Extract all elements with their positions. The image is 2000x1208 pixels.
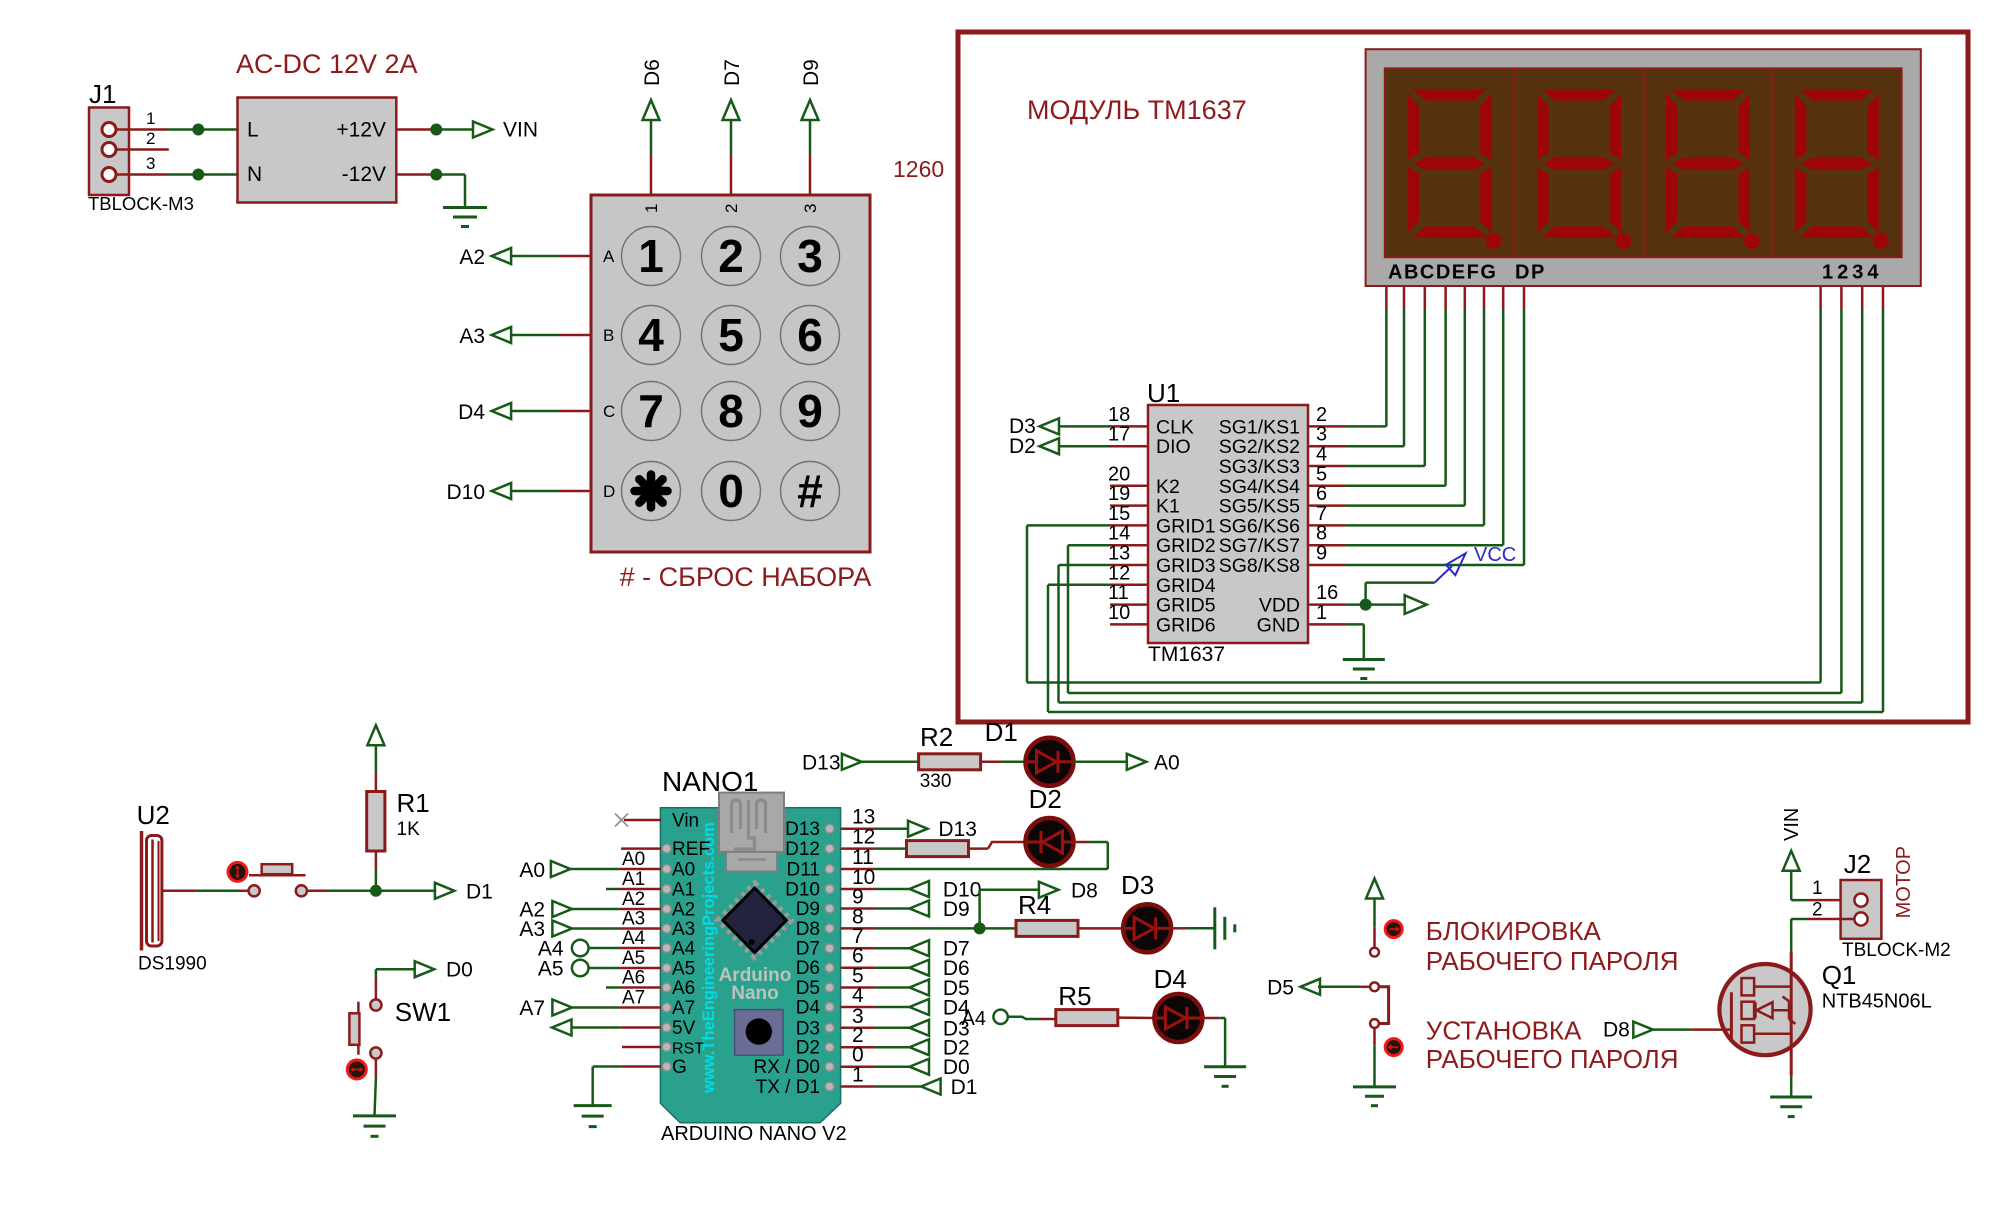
U1 pin 9 SG8/KS8 bbox=[1219, 543, 1346, 578]
svg-text:K1: K1 bbox=[1156, 496, 1180, 518]
svg-text:9: 9 bbox=[1316, 543, 1327, 565]
U1 pin 12 GRID4 bbox=[1108, 562, 1216, 597]
wire U1 SG1/KS1 to display segment bbox=[1346, 310, 1386, 426]
terminal A2 bbox=[519, 899, 572, 922]
ground below SW1 bbox=[353, 1116, 396, 1136]
svg-text:GRID4: GRID4 bbox=[1156, 575, 1216, 597]
svg-text:D2: D2 bbox=[1009, 435, 1036, 458]
svg-text:1: 1 bbox=[638, 230, 664, 282]
wire R4 to LED D3 bbox=[1078, 927, 1124, 930]
svg-text:A3: A3 bbox=[622, 909, 645, 930]
wire U1 SG7/KS7 to display segment bbox=[1346, 310, 1503, 545]
wire stub RST bbox=[622, 1046, 661, 1049]
svg-text:A2: A2 bbox=[622, 889, 645, 910]
svg-text:B: B bbox=[603, 326, 614, 345]
keypad row letter D bbox=[603, 482, 615, 501]
wire R1 top to power arrow bbox=[375, 744, 378, 791]
wire U1 GRID2 to display digit 2 bbox=[1068, 310, 1841, 693]
U1 pin 16 VDD bbox=[1259, 582, 1346, 617]
svg-text:SG3/KS3: SG3/KS3 bbox=[1219, 456, 1300, 478]
Nano silkscreen www.TheEngineeringProjects.com bbox=[700, 822, 718, 1094]
terminal A2 bbox=[459, 246, 511, 269]
svg-text:A4: A4 bbox=[962, 1008, 986, 1030]
svg-text:1260: 1260 bbox=[893, 156, 944, 182]
resistor R4 bbox=[1016, 890, 1078, 936]
svg-text:11: 11 bbox=[1108, 582, 1129, 604]
svg-text:A3: A3 bbox=[672, 919, 695, 940]
wire AC-DC -12V to ground bbox=[396, 175, 465, 208]
U1 pin 7 SG6/KS6 bbox=[1219, 503, 1346, 538]
wire A7 bbox=[572, 1006, 661, 1009]
svg-text:ARDUINO NANO V2: ARDUINO NANO V2 bbox=[661, 1123, 847, 1145]
wire D13 to R2 bbox=[861, 761, 918, 764]
Nano pin A1 bbox=[662, 880, 695, 901]
svg-text:N: N bbox=[247, 163, 262, 186]
svg-text:5: 5 bbox=[718, 309, 744, 361]
wire SW1 to ground bbox=[375, 1059, 376, 1116]
display digit 4 segments bbox=[1795, 89, 1879, 238]
svg-text:1234: 1234 bbox=[1822, 262, 1883, 284]
wire A3 bbox=[572, 927, 661, 930]
wire D8 to Q1 gate bbox=[1653, 1028, 1732, 1031]
pin number 2 of J1 bbox=[146, 129, 155, 148]
terminal D1 bbox=[875, 1076, 978, 1099]
U1 pin 19 K1 bbox=[1108, 483, 1180, 517]
Nano pin REF bbox=[662, 839, 710, 860]
net label A1 on wire bbox=[622, 869, 645, 890]
display pin label DP bbox=[1515, 262, 1546, 284]
svg-text:18: 18 bbox=[1108, 404, 1130, 426]
Nano pin A7 bbox=[662, 998, 695, 1019]
push button contact (U2 line) bbox=[249, 864, 308, 896]
LED D1 bbox=[985, 717, 1074, 786]
svg-text:330: 330 bbox=[920, 771, 952, 792]
svg-text:3: 3 bbox=[146, 154, 155, 173]
svg-text:A5: A5 bbox=[672, 959, 695, 980]
svg-text:A7: A7 bbox=[672, 998, 695, 1019]
connector J1 TBLOCK-M3 bbox=[88, 79, 194, 214]
terminal D2 bbox=[1009, 435, 1059, 458]
wire D8 net bbox=[875, 890, 1039, 929]
connector J2 TBLOCK-M2 bbox=[1841, 849, 1951, 961]
svg-text:4: 4 bbox=[852, 984, 864, 1007]
svg-text:D13: D13 bbox=[802, 752, 841, 775]
svg-text:9: 9 bbox=[797, 385, 823, 437]
svg-text:D3: D3 bbox=[1121, 870, 1154, 900]
svg-text:3: 3 bbox=[801, 204, 820, 213]
wire keypad row D4 bbox=[511, 410, 591, 413]
wire U1 GND to ground bbox=[1346, 624, 1364, 659]
wire U1 VDD net bbox=[1346, 583, 1435, 605]
svg-text:13: 13 bbox=[1108, 543, 1130, 565]
svg-text:G: G bbox=[672, 1057, 687, 1078]
keypad row letter C bbox=[603, 402, 615, 421]
svg-text:A7: A7 bbox=[519, 997, 545, 1020]
svg-text:D8: D8 bbox=[1603, 1018, 1630, 1041]
ground below Q1 bbox=[1770, 1097, 1812, 1117]
display digit pin labels 1234 bbox=[1822, 262, 1883, 284]
switch SW1 bbox=[349, 997, 451, 1059]
keypad column 3 pin label D9 bbox=[800, 59, 823, 86]
wire J1 pin1 to AC-DC L bbox=[116, 128, 238, 131]
display digit 1 segments bbox=[1408, 89, 1492, 238]
svg-text:R2: R2 bbox=[920, 722, 953, 752]
ground right of LED D3 bbox=[1215, 907, 1235, 949]
svg-text:R4: R4 bbox=[1018, 890, 1051, 920]
Nano pin 5 D5 bbox=[796, 965, 875, 1000]
svg-text:4: 4 bbox=[1316, 444, 1327, 466]
svg-text:D1: D1 bbox=[951, 1076, 978, 1099]
Nano pin Vin bbox=[672, 811, 699, 832]
terminal 5V power arrow bbox=[552, 1020, 572, 1036]
svg-text:МОТОР: МОТОР bbox=[1893, 846, 1915, 918]
ground bbox=[443, 208, 487, 227]
keypad key 7 bbox=[622, 382, 681, 441]
display digit 3 decimal point bbox=[1744, 233, 1760, 249]
terminal D6 bbox=[875, 957, 970, 980]
U1 pin 10 GRID6 bbox=[1108, 602, 1216, 637]
wire U1 SG8/KS8 to display segment bbox=[1346, 310, 1524, 565]
annotation БЛОКИРОВКА РАБОЧЕГО ПАРОЛЯ bbox=[1426, 916, 1679, 976]
svg-text:A1: A1 bbox=[672, 880, 695, 901]
Nano pin A4 bbox=[662, 939, 695, 960]
terminal A3 bbox=[459, 325, 511, 348]
terminal A7 bbox=[519, 997, 572, 1020]
Nano pin 5V bbox=[662, 1018, 695, 1039]
wire AC-DC +12V to VIN bbox=[396, 128, 474, 131]
terminal power arrow above toggle switch bbox=[1366, 879, 1383, 899]
wire LED D1 to A0 bbox=[1073, 761, 1127, 764]
Nano pin A2 bbox=[662, 900, 695, 921]
terminal VIN arrow at J2 bbox=[1783, 851, 1800, 871]
svg-text:D0: D0 bbox=[446, 959, 473, 982]
no-connect X on Vin bbox=[615, 814, 661, 827]
keypad column 1 pin label D6 bbox=[641, 59, 664, 86]
terminal A4 input pin bbox=[962, 1008, 1008, 1030]
svg-text:6: 6 bbox=[1316, 483, 1327, 505]
display digit pin stubs bbox=[1821, 286, 1883, 310]
Nano USB connector bbox=[719, 793, 784, 872]
terminal D1 net bbox=[435, 880, 493, 903]
svg-text:RST: RST bbox=[672, 1041, 704, 1058]
net label A4 on wire bbox=[622, 928, 646, 949]
terminal D5 bbox=[875, 977, 970, 1000]
wire keypad column 2 bbox=[730, 120, 733, 195]
keypad column number 2 bbox=[722, 204, 741, 213]
svg-text:A2: A2 bbox=[672, 900, 695, 921]
keypad column number 1 bbox=[642, 204, 661, 213]
keypad column number 3 bbox=[801, 204, 820, 213]
wire U1 GRID3 to display digit 3 bbox=[1059, 310, 1863, 703]
svg-text:SW1: SW1 bbox=[395, 997, 451, 1027]
wire Q1 source to ground bbox=[1790, 1076, 1793, 1097]
keypad KEYPAD-PHONE bbox=[591, 195, 870, 552]
touch marker toggle down bbox=[1385, 1039, 1402, 1056]
wire U1 SG3/KS3 to display segment bbox=[1346, 310, 1425, 466]
U1 pin 11 GRID5 bbox=[1108, 582, 1216, 617]
Nano pin 9 D9 bbox=[796, 886, 875, 921]
Nano reset button bbox=[735, 1010, 783, 1056]
wire A4 bbox=[589, 947, 662, 950]
svg-text:D7: D7 bbox=[721, 59, 744, 86]
svg-text:1: 1 bbox=[1812, 878, 1823, 899]
svg-text:K2: K2 bbox=[1156, 476, 1180, 498]
svg-text:1: 1 bbox=[146, 109, 155, 128]
Nano pin 6 D6 bbox=[796, 945, 875, 980]
svg-text:D2: D2 bbox=[796, 1038, 820, 1059]
resistor R5 bbox=[1056, 981, 1118, 1026]
U1 pin 13 GRID3 bbox=[1108, 543, 1216, 578]
U1 pin 4 SG3/KS3 bbox=[1219, 444, 1346, 479]
svg-text:A7: A7 bbox=[622, 988, 645, 1009]
svg-text:SG6/KS6: SG6/KS6 bbox=[1219, 515, 1300, 537]
wire toggle bottom to ground bbox=[1373, 1028, 1376, 1087]
net label VIN rotated bbox=[1781, 808, 1803, 841]
svg-text:D6: D6 bbox=[641, 59, 664, 86]
svg-text:NTB45N06L: NTB45N06L bbox=[1822, 991, 1932, 1013]
keypad key 8 bbox=[702, 382, 761, 441]
svg-text:D3: D3 bbox=[796, 1018, 820, 1039]
Nano MCU chip bbox=[718, 884, 791, 958]
U1 pin 15 GRID1 bbox=[1108, 503, 1216, 538]
annotation МОДУЛЬ TM1637 bbox=[1027, 95, 1247, 125]
junction at R1 / D1 bbox=[370, 885, 382, 897]
Nano pin RST bbox=[662, 1041, 704, 1058]
Nano pin 3 D3 bbox=[796, 1005, 875, 1040]
svg-text:D10: D10 bbox=[785, 880, 820, 901]
pin number 3 of J1 bbox=[146, 154, 155, 173]
module NANO1 Arduino Nano board bbox=[660, 766, 840, 1123]
svg-text:7: 7 bbox=[638, 385, 664, 437]
terminal D3 bbox=[1009, 415, 1059, 438]
resistor R3 (330) bbox=[907, 841, 969, 857]
AC-DC converter block bbox=[238, 98, 397, 203]
Nano pin A6 bbox=[662, 978, 695, 999]
touch marker of SW1 bbox=[347, 1060, 366, 1079]
wire LED D3 to ground bbox=[1171, 927, 1215, 930]
Nano pin A3 bbox=[662, 919, 695, 940]
module border МОДУЛЬ TM1637 bbox=[958, 32, 1968, 722]
wire 5V bbox=[572, 1026, 662, 1029]
wire U1 SG4/KS4 to display segment bbox=[1346, 310, 1446, 486]
svg-text:A: A bbox=[603, 247, 615, 266]
net label A6 on wire bbox=[622, 968, 645, 989]
keypad row letter A bbox=[603, 247, 615, 266]
svg-text:REF: REF bbox=[672, 839, 710, 860]
wire keypad column 1 bbox=[650, 120, 653, 195]
svg-text:RX / D0: RX / D0 bbox=[753, 1057, 820, 1078]
svg-text:A0: A0 bbox=[622, 849, 645, 870]
Nano pin 13 D13 bbox=[785, 806, 875, 841]
svg-text:14: 14 bbox=[1108, 523, 1130, 545]
wire J1 pin3 to AC-DC N bbox=[116, 173, 238, 176]
svg-text:# - СБРОС НАБОРА: # - СБРОС НАБОРА bbox=[620, 562, 872, 592]
wire toggle common to D5 bbox=[1318, 986, 1370, 989]
display segment pin stubs bbox=[1386, 286, 1524, 310]
svg-text:4: 4 bbox=[638, 309, 664, 361]
keypad key 4 bbox=[622, 306, 681, 365]
terminal A5 pin bbox=[538, 958, 589, 981]
svg-text:VIN: VIN bbox=[503, 119, 538, 142]
toggle switch SPDT bbox=[1370, 948, 1389, 1028]
svg-text:VDD: VDD bbox=[1259, 595, 1300, 617]
svg-text:A3: A3 bbox=[459, 325, 485, 348]
Nano pin 7 D7 bbox=[796, 925, 875, 960]
svg-text:D2: D2 bbox=[1029, 784, 1062, 814]
svg-text:D12: D12 bbox=[785, 839, 820, 860]
wire R2 to LED D1 bbox=[981, 761, 1026, 764]
keypad key 1 bbox=[622, 227, 681, 286]
wire toggle top bbox=[1373, 899, 1376, 948]
svg-text:DP: DP bbox=[1515, 262, 1546, 284]
svg-text:3: 3 bbox=[1316, 424, 1327, 446]
wire U1 SG2/KS2 to display segment bbox=[1346, 310, 1404, 446]
annotation 1260 bbox=[893, 156, 944, 182]
svg-text:A2: A2 bbox=[459, 246, 485, 269]
svg-text:A0: A0 bbox=[1154, 751, 1180, 774]
svg-text:7: 7 bbox=[1316, 503, 1327, 525]
svg-text:TBLOCK-M3: TBLOCK-M3 bbox=[88, 193, 194, 214]
svg-text:3: 3 bbox=[797, 230, 823, 282]
wire U1 GRID4 to display digit 4 bbox=[1048, 310, 1883, 712]
svg-text:D13: D13 bbox=[938, 818, 977, 841]
wire A5 bbox=[589, 967, 662, 970]
terminal VDD power arrow bbox=[1405, 595, 1427, 614]
junction on D8 wire bbox=[974, 922, 986, 934]
svg-text:Nano: Nano bbox=[731, 983, 779, 1004]
Nano pin A0 bbox=[662, 860, 695, 881]
svg-text:РАБОЧЕГО ПАРОЛЯ: РАБОЧЕГО ПАРОЛЯ bbox=[1426, 1044, 1679, 1074]
svg-text:A6: A6 bbox=[672, 978, 695, 999]
power flag VCC bbox=[1435, 544, 1517, 583]
wire stub A6 bbox=[606, 986, 661, 989]
U1 pin 18 CLK bbox=[1108, 404, 1194, 439]
terminal D4 bbox=[458, 401, 511, 424]
svg-text:0: 0 bbox=[718, 465, 744, 517]
terminal D9 bbox=[802, 100, 819, 120]
terminal D8 bbox=[1039, 879, 1098, 902]
terminal D0 bbox=[415, 959, 473, 982]
svg-text:GND: GND bbox=[1257, 614, 1300, 636]
svg-text:D9: D9 bbox=[796, 899, 820, 920]
U1 pin 6 SG5/KS5 bbox=[1219, 483, 1346, 517]
svg-text:J2: J2 bbox=[1844, 849, 1871, 879]
svg-text:2: 2 bbox=[146, 129, 155, 148]
terminal D2 bbox=[875, 1037, 970, 1060]
svg-text:19: 19 bbox=[1108, 483, 1130, 505]
pin number 1 of J1 bbox=[146, 109, 155, 128]
display digit 2 segments bbox=[1537, 89, 1621, 238]
keypad key 0 bbox=[702, 462, 761, 521]
net label A3 on wire bbox=[622, 909, 645, 930]
svg-text:D5: D5 bbox=[1267, 976, 1294, 999]
U1 pin 2 SG1/KS1 bbox=[1219, 404, 1346, 439]
iButton U2 DS1990 bbox=[137, 800, 207, 975]
keypad key 9 bbox=[781, 382, 840, 441]
svg-text:10: 10 bbox=[1108, 602, 1130, 624]
svg-text:A6: A6 bbox=[622, 968, 645, 989]
Nano pin G bbox=[662, 1057, 687, 1078]
svg-text:L: L bbox=[247, 119, 259, 142]
transistor Q1 NTB45N06L bbox=[1719, 951, 1931, 1075]
wire D2 to U1 DIO bbox=[1059, 445, 1110, 448]
svg-text:12: 12 bbox=[1108, 562, 1130, 584]
wire G to ground bbox=[593, 1067, 661, 1106]
terminal D4 bbox=[875, 997, 970, 1020]
terminal D8 gate bbox=[1603, 1018, 1653, 1041]
svg-text:GRID3: GRID3 bbox=[1156, 555, 1216, 577]
svg-text:-12V: -12V bbox=[342, 163, 386, 186]
wire J2 pin2 to Q1 drain bbox=[1791, 919, 1854, 951]
svg-text:A4: A4 bbox=[622, 928, 646, 949]
pin number 2 of J2 bbox=[1812, 900, 1823, 921]
keypad key * bbox=[622, 462, 681, 521]
Nano pin 11 D11 bbox=[787, 846, 875, 881]
resistor R2 bbox=[919, 722, 981, 770]
annotation AC-DC 12V 2A bbox=[236, 49, 418, 79]
svg-text:D4: D4 bbox=[458, 401, 485, 424]
wire keypad column 3 bbox=[809, 120, 812, 195]
terminal D13 input bbox=[802, 752, 861, 775]
terminal A3 bbox=[519, 918, 572, 941]
svg-text:1: 1 bbox=[852, 1064, 864, 1087]
Nano pin 4 D4 bbox=[796, 984, 875, 1019]
svg-text:SG2/KS2: SG2/KS2 bbox=[1219, 436, 1300, 458]
svg-text:A5: A5 bbox=[538, 958, 564, 981]
svg-text:TM1637: TM1637 bbox=[1148, 643, 1225, 666]
svg-text:DS1990: DS1990 bbox=[138, 954, 207, 975]
svg-text:D1: D1 bbox=[466, 880, 493, 903]
U1 pin 8 SG7/KS7 bbox=[1219, 523, 1346, 558]
terminal D10 bbox=[875, 879, 982, 902]
svg-text:БЛОКИРОВКА: БЛОКИРОВКА bbox=[1426, 916, 1602, 946]
svg-text:A1: A1 bbox=[622, 869, 645, 890]
wire R5 to LED D4 bbox=[1118, 1016, 1155, 1019]
svg-text:Vin: Vin bbox=[672, 811, 699, 832]
terminal A4 pin bbox=[538, 938, 589, 961]
svg-text:D9: D9 bbox=[800, 59, 823, 86]
ground below LED D4 bbox=[1204, 1067, 1246, 1087]
svg-text:Q1: Q1 bbox=[1822, 960, 1857, 990]
wire button to D1 junction bbox=[307, 890, 436, 893]
keypad row letter B bbox=[603, 326, 614, 345]
svg-text:D: D bbox=[603, 482, 615, 501]
svg-text:D10: D10 bbox=[446, 481, 485, 504]
svg-text:TX / D1: TX / D1 bbox=[756, 1077, 820, 1098]
terminal D0 bbox=[875, 1056, 970, 1079]
svg-text:15: 15 bbox=[1108, 503, 1130, 525]
terminal power arrow above R1 bbox=[367, 725, 384, 745]
svg-text:A0: A0 bbox=[672, 860, 695, 881]
display digit 2 decimal point bbox=[1615, 233, 1631, 249]
svg-text:6: 6 bbox=[797, 309, 823, 361]
svg-text:VCC: VCC bbox=[1474, 544, 1516, 566]
terminal D5 bbox=[1267, 976, 1320, 999]
svg-text:2: 2 bbox=[722, 204, 741, 213]
svg-text:1: 1 bbox=[1316, 602, 1327, 624]
keypad key 5 bbox=[702, 306, 761, 365]
resistor R1 bbox=[367, 788, 430, 851]
svg-text:GRID5: GRID5 bbox=[1156, 595, 1216, 617]
net label A5 on wire bbox=[622, 948, 645, 969]
svg-text:МОДУЛЬ TM1637: МОДУЛЬ TM1637 bbox=[1027, 95, 1247, 125]
wire U2 to button bbox=[162, 890, 248, 893]
svg-text:SG4/KS4: SG4/KS4 bbox=[1219, 476, 1300, 498]
svg-text:D9: D9 bbox=[943, 898, 970, 921]
svg-text:2: 2 bbox=[1812, 900, 1823, 921]
ground at Nano G bbox=[574, 1106, 612, 1127]
svg-text:SG1/KS1: SG1/KS1 bbox=[1219, 416, 1300, 438]
